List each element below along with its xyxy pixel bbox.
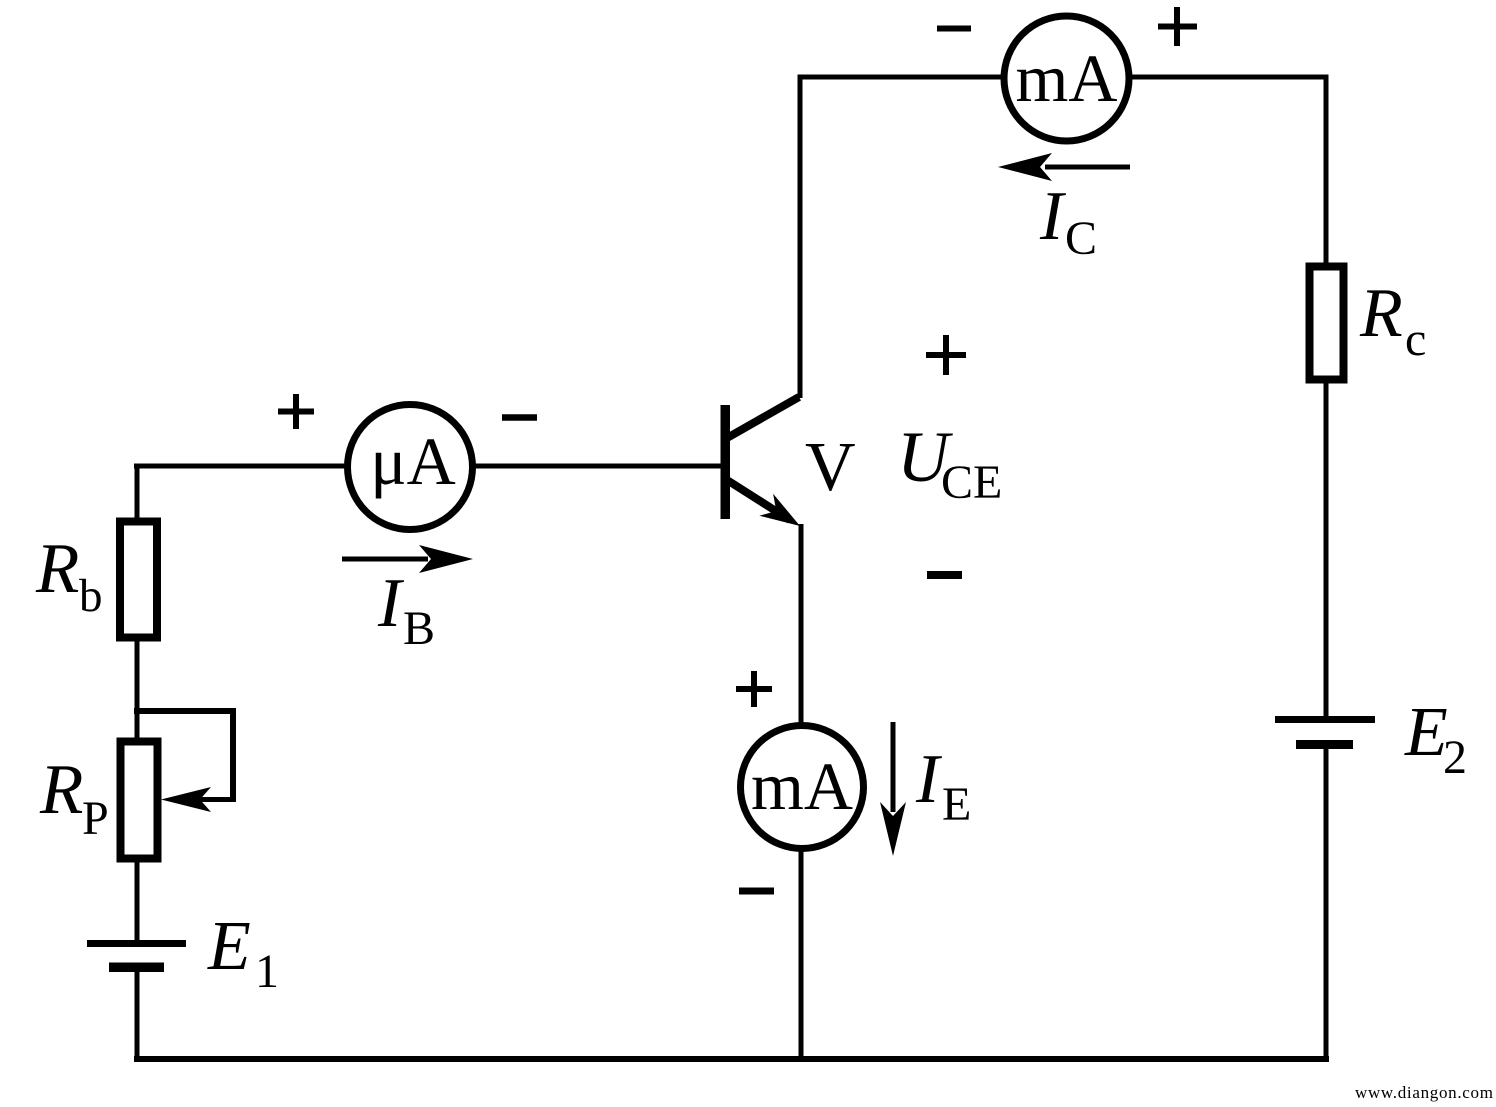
wire branch horizontal to wiper (134, 708, 236, 714)
wire collector vertical (798, 75, 803, 399)
wire left vertical (135, 464, 140, 941)
battery E1 long plate (87, 940, 186, 947)
current arrow IC (998, 153, 1130, 181)
ammeter mA emitter (741, 726, 864, 849)
current arrow IB (342, 545, 473, 573)
svg-text:E: E (207, 908, 251, 985)
transistor V base bar (721, 405, 731, 519)
battery E2 short plate (1296, 740, 1353, 749)
minus sign right of uA (502, 414, 537, 421)
svg-text:E: E (1404, 694, 1448, 771)
svg-text:V: V (805, 429, 856, 506)
svg-text:μA: μA (370, 423, 456, 499)
svg-text:R: R (35, 530, 79, 608)
battery E1 short plate (109, 963, 164, 973)
svg-text:mA: mA (751, 748, 853, 824)
svg-text:I: I (915, 741, 943, 818)
svg-text:P: P (82, 792, 109, 845)
plus sign UCE (926, 335, 966, 375)
svg-text:B: B (403, 602, 435, 655)
svg-text:C: C (1065, 212, 1097, 265)
transistor emitter diagonal (727, 480, 790, 520)
svg-text:www.diangon.com: www.diangon.com (1355, 1083, 1493, 1102)
svg-text:1: 1 (255, 945, 279, 998)
transistor collector diagonal (727, 397, 799, 438)
potentiometer wiper arrow (161, 787, 233, 812)
plus sign right of top mA (1158, 7, 1197, 46)
wire top horizontal (798, 75, 1327, 80)
minus sign UCE (927, 571, 962, 579)
svg-text:c: c (1405, 313, 1426, 366)
svg-text:2: 2 (1443, 731, 1467, 784)
svg-text:E: E (942, 778, 971, 831)
resistor Rb (120, 522, 157, 638)
wire E1 to bottom (135, 972, 140, 1062)
plus sign above emitter meter (736, 671, 772, 707)
wire right vertical lower (1324, 749, 1329, 1062)
wire base horizontal (134, 464, 722, 469)
svg-text:R: R (1359, 275, 1403, 352)
battery E2 long plate (1275, 716, 1375, 723)
svg-text:R: R (39, 751, 83, 829)
svg-text:I: I (377, 565, 405, 642)
svg-text:CE: CE (941, 456, 1002, 509)
minus sign left of top mA (937, 26, 971, 32)
wire emitter vertical (799, 524, 804, 1059)
resistor Rc (1310, 267, 1344, 380)
plus sign left of uA (278, 394, 314, 429)
potentiometer RP (121, 742, 158, 859)
current arrow IE (880, 722, 906, 856)
minus sign below emitter meter (739, 888, 774, 895)
wire bottom horizontal (134, 1056, 1329, 1062)
wire branch vertical (230, 708, 236, 802)
svg-text:b: b (79, 570, 103, 622)
wire right vertical upper (1324, 75, 1329, 717)
microammeter uA (348, 405, 473, 530)
transistor emitter arrow (759, 494, 800, 526)
ammeter mA collector (1004, 16, 1129, 141)
svg-text:I: I (1039, 178, 1067, 255)
svg-text:mA: mA (1016, 40, 1118, 116)
